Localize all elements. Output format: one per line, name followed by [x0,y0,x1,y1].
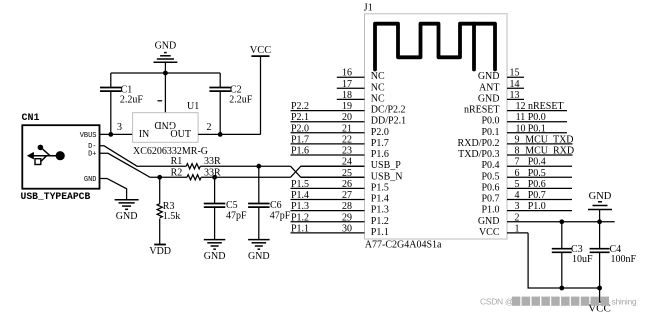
wire D- from CN1 to R1 [100,146,187,166]
svg-text:CSDN @: CSDN @ [480,297,513,307]
power symbol VCC (bottom) [588,288,611,315]
J1 pin 20 number [342,112,352,123]
J1 pin 17 stub wire [337,87,365,89]
J1 pin 21 number [342,123,352,134]
power symbol VDD [149,245,171,257]
J1 pin 14 name ANT [479,82,500,93]
J1 pin 27 number [342,190,352,201]
U1 pin 2 number [207,122,212,133]
svg-text:GND: GND [478,93,500,104]
connector CN1 refdes label [22,113,40,124]
svg-text:16: 16 [342,68,352,79]
J1 pin 23 stub wire [291,154,365,156]
svg-text:GND: GND [204,251,226,262]
J1 pin 3 name P1.0 [481,205,499,216]
module J1 refdes label [364,3,373,14]
junction node VBUS/C1/U1-IN [108,132,113,137]
J1 pin 29 name P1.2 [371,216,389,227]
J1 pin 14 stub wire [507,87,524,89]
J1 pin 2 number [515,212,520,223]
svg-text:5: 5 [515,179,520,190]
net label MCU_TXD [525,134,573,145]
svg-text:P1.0: P1.0 [481,205,499,216]
svg-text:P1.1: P1.1 [371,227,389,238]
J1 pin 15 number [510,68,520,79]
connector CN1 body [22,125,99,189]
svg-text:3: 3 [515,201,520,212]
svg-text:2: 2 [515,212,520,223]
svg-text:P2.0: P2.0 [291,123,309,134]
svg-text:24: 24 [342,157,352,168]
svg-text:P0.1: P0.1 [528,123,546,134]
J1 pin 12 name nRESET [464,105,500,116]
ground symbol below CN1 [115,200,139,222]
svg-text:1.5k: 1.5k [163,211,181,222]
svg-text:P1.7: P1.7 [291,134,309,145]
svg-text:P0.4: P0.4 [528,157,546,168]
J1 pin 27 stub wire [291,199,365,201]
svg-text:P1.0: P1.0 [528,201,546,212]
svg-text:3: 3 [117,122,122,133]
svg-text:2.2uF: 2.2uF [229,95,253,106]
module J1 body [365,14,508,239]
junction node top rail / GND stem [163,71,168,76]
svg-text:P1.6: P1.6 [371,149,389,160]
wire GND stem into U1 pin 1 [164,62,166,112]
svg-text:P0.1: P0.1 [481,127,499,138]
svg-text:P1.7: P1.7 [371,138,389,149]
svg-text:USB_N: USB_N [371,171,403,182]
J1 pin 5 number [515,179,520,190]
svg-text:12: 12 [516,101,526,112]
J1 pin 25 stub wire [301,176,365,178]
svg-text:GND: GND [248,251,270,262]
svg-text:P0.4: P0.4 [481,160,499,171]
J1 pin 19 name DC/P2.2 [371,105,406,116]
svg-text:P1.3: P1.3 [291,201,309,212]
wire GND stem to pin2 net [599,210,601,222]
J1 pin 11 stub wire [507,121,567,123]
ground symbol below C6 [248,240,270,262]
J1 pin 9 stub wire [507,143,573,145]
svg-text:C6: C6 [270,200,282,211]
capacitor C6 value 47pF [270,211,291,222]
net label P1.5 [291,179,309,190]
svg-text:47pF: 47pF [270,211,291,222]
svg-text:33R: 33R [204,156,221,167]
ground symbol below C5 [204,240,226,262]
net label MCU_RXD [525,146,574,157]
J1 pin 23 name P1.6 [371,149,389,160]
svg-text:17: 17 [342,79,352,90]
net label P2.2 [291,101,309,112]
module J1 value label A77-C2G4A04S1a [365,240,442,251]
svg-text:29: 29 [342,212,352,223]
J1 pin 18 number [342,90,352,101]
J1 pin 10 number [516,123,526,134]
J1 pin 30 stub wire [291,232,365,234]
svg-text:8: 8 [515,146,520,157]
svg-text:P1.2: P1.2 [291,212,309,223]
J1 pin 10 stub wire [507,132,567,134]
J1 pin 16 name NC [371,71,385,82]
junction node C5 on D+ net [212,175,217,180]
capacitor C2 [209,73,231,134]
svg-text:VCC: VCC [479,227,500,238]
net label P1.0 [528,201,546,212]
resistor R1 [186,164,200,169]
J1 pin 18 stub wire [337,98,365,100]
svg-text:RXD/P0.2: RXD/P0.2 [458,138,500,149]
svg-text:NC: NC [371,93,385,104]
svg-text:9: 9 [515,134,520,145]
svg-text:VDD: VDD [149,246,171,257]
resistor R1 refdes [171,156,183,167]
svg-text:OUT: OUT [170,129,191,140]
J1 pin 3 number [515,201,520,212]
J1 pin 13 number [510,90,520,101]
svg-text:P0.6: P0.6 [481,182,499,193]
svg-text:MCU_RXD: MCU_RXD [525,146,574,157]
J1 pin 28 name P1.3 [371,205,389,216]
connector CN1 value label USB_TYPEAPCB [21,191,91,202]
J1 pin 25 name USB_N [371,171,403,182]
net label nRESET [528,101,564,112]
svg-text:2: 2 [207,122,212,133]
J1 pin 2 name GND [478,216,500,227]
svg-text:11: 11 [516,112,526,123]
svg-text:NC: NC [371,82,385,93]
J1 pin 6 stub wire [507,176,572,178]
svg-text:P0.5: P0.5 [528,168,546,179]
J1 pin 7 stub wire [507,165,572,167]
svg-text:GND: GND [589,191,612,202]
net label P1.3 [291,201,309,212]
svg-text:nRESET: nRESET [528,101,564,112]
svg-text:P0.5: P0.5 [481,171,499,182]
svg-text:GND: GND [84,176,97,184]
J1 pin 27 name P1.4 [371,194,389,205]
resistor R3 refdes [163,201,175,212]
svg-text:GND: GND [116,211,138,222]
svg-text:10: 10 [516,123,526,134]
capacitor C6 refdes [270,200,282,211]
svg-text:GND: GND [478,216,500,227]
antenna meander inside J1 [375,24,495,70]
J1 pin 28 stub wire [291,210,365,212]
svg-text:GND: GND [478,71,500,82]
J1 pin 20 name DD/P2.1 [371,116,406,127]
resistor R2 [187,175,201,180]
capacitor C4 [590,222,610,288]
wire crossover D- to USB_N pin 25 [291,166,365,177]
svg-text:10uF: 10uF [572,254,593,265]
junction node C6 on D- net [256,164,261,169]
wire crossover D+ to USB_P pin 24 [291,166,365,177]
U1 pin GND label (rotated 180) [154,119,176,130]
svg-text:P2.0: P2.0 [371,127,389,138]
J1 pin 26 number [342,179,352,190]
J1 pin 8 stub wire [507,154,573,156]
wire CN1 GND pin to ground [100,179,127,200]
svg-text:27: 27 [342,190,352,201]
svg-text:P1.2: P1.2 [371,216,389,227]
J1 pin 15 stub wire [507,76,524,78]
U1 value label XC6206332MR-G [133,146,208,157]
resistor R1 value 33R [204,156,221,167]
svg-text:nRESET: nRESET [464,105,500,116]
svg-text:MCU_TXD: MCU_TXD [525,134,573,145]
J1 pin 22 name P1.7 [371,138,389,149]
op U1 regulator body [133,113,199,143]
J1 pin 25 number [342,168,352,179]
capacitor C5 refdes [226,200,238,211]
net label P0.4 [528,157,546,168]
J1 pin 2 stub wire [507,221,615,223]
power symbol VCC (top) [250,45,272,134]
J1 pin 6 name P0.5 [481,171,499,182]
J1 pin 15 name GND [478,71,500,82]
capacitor C4 value 100nF [611,254,637,265]
J1 pin 21 name P2.0 [371,127,389,138]
svg-text:19: 19 [342,101,352,112]
CN1 pin name D- [88,143,96,151]
svg-text:1: 1 [515,223,520,234]
J1 pin 4 stub wire [507,199,572,201]
capacitor C3 refdes [571,244,583,255]
net label P1.1 [291,223,309,234]
CN1 pin name VBUS [80,132,97,140]
junction node C2 / U1-OUT wire [218,132,223,137]
svg-text:P1.3: P1.3 [371,205,389,216]
svg-text:14: 14 [510,79,520,90]
resistor R2 refdes [171,167,183,178]
J1 pin 9 number [515,134,520,145]
svg-text:15: 15 [510,68,520,79]
J1 pin 30 name P1.1 [371,227,389,238]
svg-text:P2.1: P2.1 [291,112,309,123]
J1 pin 13 stub wire [507,98,524,100]
capacitor C2 refdes [230,84,242,95]
J1 pin 24 name USB_P [371,160,401,171]
svg-text:DD/P2.1: DD/P2.1 [371,116,406,127]
J1 pin 7 number [515,157,520,168]
net label P2.0 [291,123,309,134]
J1 pin 12 number [516,101,526,112]
svg-text:P0.0: P0.0 [528,112,546,123]
resistor R3 [157,177,162,244]
svg-text:DC/P2.2: DC/P2.2 [371,105,406,116]
net label P1.7 [291,134,309,145]
J1 pin 28 number [342,201,352,212]
svg-text:22: 22 [342,134,352,145]
ground symbol above U1 (inverted) [154,41,178,63]
svg-text:J1: J1 [364,3,373,14]
svg-text:P0.0: P0.0 [481,116,499,127]
svg-text:IN: IN [139,129,150,140]
svg-text:P1.4: P1.4 [371,194,389,205]
J1 pin 1 name VCC [479,227,500,238]
J1 pin 16 stub wire [337,76,365,78]
CN1 pin name D+ [88,151,96,159]
junction node C4/GND top [597,219,602,224]
net label P0.7 [528,190,546,201]
junction node C4/VCC bottom [597,286,602,291]
J1 pin 20 stub wire [291,121,365,123]
capacitor C1 refdes [121,84,133,95]
capacitor C5 value 47pF [226,211,247,222]
J1 pin 5 stub wire [507,187,572,189]
net label P1.4 [291,190,309,201]
wire U1 OUT to VCC [198,133,260,135]
J1 pin 22 number [342,134,352,145]
net label P0.0 [528,112,546,123]
svg-text:A77-C2G4A04S1a: A77-C2G4A04S1a [365,240,442,251]
CN1 pin name GND [84,176,97,184]
U1 pin OUT label [170,129,191,140]
svg-text:shining: shining [612,297,637,307]
wire top rail C1 to C2 [111,72,220,74]
capacitor C3 value 10uF [572,254,593,265]
svg-text:U1: U1 [187,101,199,112]
svg-text:P0.7: P0.7 [481,194,499,205]
net label P0.1 [528,123,546,134]
svg-text:25: 25 [342,168,352,179]
svg-text:18: 18 [342,90,352,101]
svg-text:6: 6 [515,168,520,179]
J1 pin 12 stub wire [507,110,567,112]
net label P0.6 [528,179,546,190]
capacitor C2 value 2.2uF [229,95,253,106]
junction node C3 top [559,219,564,224]
wire R2 to crossover [201,176,290,178]
svg-text:ANT: ANT [479,82,500,93]
J1 pin 17 name NC [371,82,385,93]
J1 pin 9 name RXD/P0.2 [458,138,500,149]
J1 pin 19 number [342,101,352,112]
U1 pin 1 number (rotated) [158,100,163,102]
J1 pin 11 name P0.0 [481,116,499,127]
svg-text:13: 13 [510,90,520,101]
J1 pin 4 number [515,190,520,201]
USB icon inside CN1 [27,145,65,165]
J1 pin 26 name P1.5 [371,182,389,193]
U1 refdes label [187,101,199,112]
svg-text:R2: R2 [171,167,183,178]
J1 pin 14 number [510,79,520,90]
J1 pin 10 name P0.1 [481,127,499,138]
J1 pin 11 number [516,112,526,123]
svg-text:30: 30 [342,223,352,234]
svg-text:100nF: 100nF [611,254,637,265]
svg-text:28: 28 [342,201,352,212]
svg-text:USB_P: USB_P [371,160,401,171]
wire D+ from CN1 to R2 [100,153,188,177]
svg-text:NC: NC [371,71,385,82]
svg-text:D+: D+ [88,151,96,159]
svg-text:R1: R1 [171,156,183,167]
capacitor C1 value 2.2uF [120,95,143,106]
J1 pin 1 number [515,223,520,234]
svg-text:P0.6: P0.6 [528,179,546,190]
J1 pin 7 name P0.4 [481,160,499,171]
J1 pin 3 stub wire [507,210,572,212]
watermark CSDN [480,297,637,307]
svg-text:CN1: CN1 [22,113,40,124]
J1 pin 17 number [342,79,352,90]
J1 pin 19 stub wire [291,110,365,112]
wire pin1 VCC down and along bottom [528,233,600,288]
svg-text:47pF: 47pF [226,211,247,222]
svg-text:20: 20 [342,112,352,123]
svg-text:P1.4: P1.4 [291,190,309,201]
svg-text:26: 26 [342,179,352,190]
junction node R3 on D+ net [157,175,162,180]
capacitor C6 [248,166,270,239]
svg-text:C5: C5 [226,200,238,211]
J1 pin 26 stub wire [291,187,365,189]
capacitor C5 [204,177,226,239]
J1 pin 18 name NC [371,93,385,104]
svg-text:VBUS: VBUS [80,132,97,140]
resistor R2 value 33R [204,167,221,178]
capacitor C4 refdes [610,244,622,255]
J1 pin 4 name P0.7 [481,194,499,205]
J1 pin 24 stub wire [301,165,365,167]
J1 pin 30 number [342,223,352,234]
capacitor C1 [100,73,122,134]
svg-text:VCC: VCC [250,45,272,56]
net label P0.5 [528,168,546,179]
J1 pin 1 stub wire [507,232,528,234]
capacitor C3 [552,222,572,288]
resistor R3 value 1.5k [163,211,181,222]
J1 pin 6 number [515,168,520,179]
svg-text:P0.7: P0.7 [528,190,546,201]
J1 pin 5 name P0.6 [481,182,499,193]
svg-text:USB_TYPEAPCB: USB_TYPEAPCB [21,191,91,202]
J1 pin 8 number [515,146,520,157]
wire VBUS from CN1 to U1 IN [100,133,133,135]
svg-text:P1.5: P1.5 [291,179,309,190]
svg-text:23: 23 [342,146,352,157]
J1 pin 24 number [342,157,352,168]
svg-text:P1.6: P1.6 [291,146,309,157]
J1 pin 23 number [342,146,352,157]
net label P2.1 [291,112,309,123]
net label P1.2 [291,212,309,223]
wire R1 to crossover [200,165,290,167]
J1 pin 8 name TXD/P0.3 [458,149,499,160]
net label P1.6 [291,146,309,157]
svg-text:GND: GND [155,41,177,52]
U1 pin 3 number [117,122,122,133]
J1 pin 29 number [342,212,352,223]
J1 pin 21 stub wire [291,132,365,134]
J1 pin 13 name GND [478,93,500,104]
J1 pin 16 number [342,68,352,79]
svg-text:7: 7 [515,157,520,168]
U1 pin IN label [139,129,150,140]
svg-text:4: 4 [515,190,520,201]
svg-text:2.2uF: 2.2uF [120,95,143,106]
svg-text:P1.1: P1.1 [291,223,309,234]
svg-text:TXD/P0.3: TXD/P0.3 [458,149,499,160]
svg-text:P2.2: P2.2 [291,101,309,112]
svg-text:P1.5: P1.5 [371,182,389,193]
ground symbol right of J1 (inverted) [588,191,612,210]
junction node C3 bottom [559,286,564,291]
